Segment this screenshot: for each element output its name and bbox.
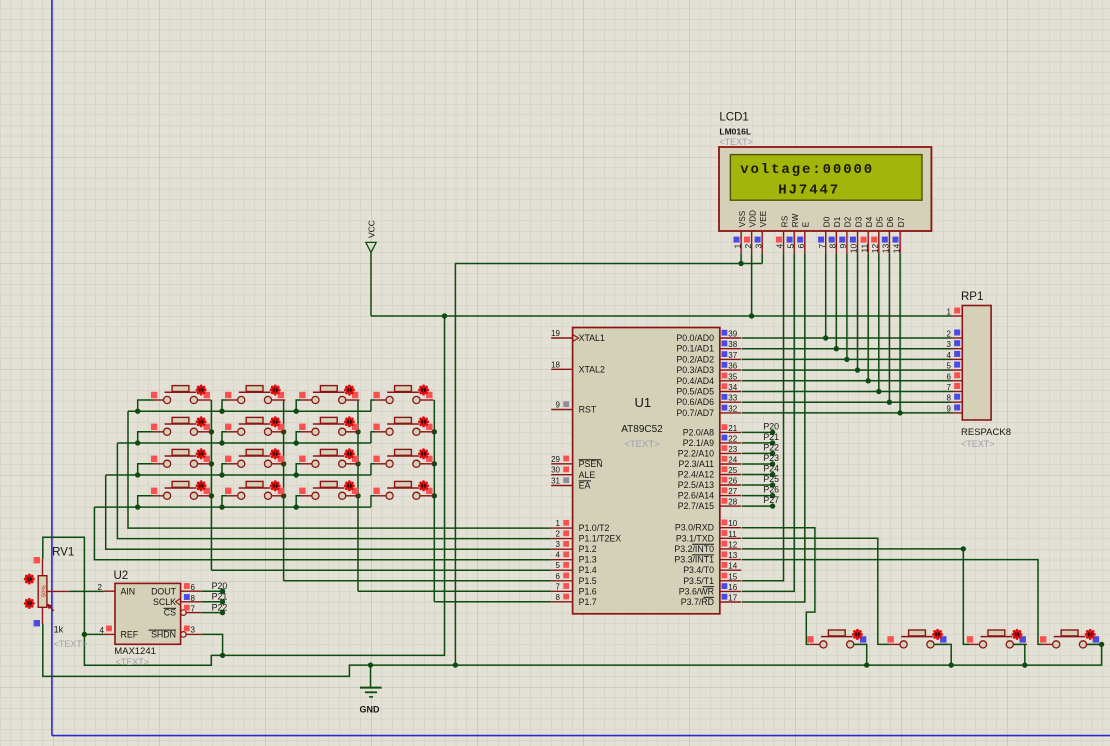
svg-text:P1.2: P1.2 — [579, 544, 597, 554]
svg-text:21: 21 — [728, 424, 737, 433]
svg-text:ALE: ALE — [579, 470, 596, 480]
push button key R4C1 — [151, 480, 211, 499]
junction key3 rail — [1022, 662, 1027, 667]
svg-text:D7: D7 — [897, 216, 906, 227]
svg-text:26: 26 — [728, 477, 737, 486]
svg-text:D4: D4 — [865, 216, 874, 227]
svg-text:25: 25 — [728, 466, 737, 475]
svg-text:VCC: VCC — [367, 220, 377, 238]
svg-text:10: 10 — [849, 244, 859, 254]
RV1 state squares — [34, 557, 40, 626]
svg-text:P1.1/T2EX: P1.1/T2EX — [579, 534, 622, 544]
wire LCD VSS — [740, 254, 742, 264]
push button key R1C1 — [151, 384, 211, 403]
svg-text:P20: P20 — [763, 421, 779, 431]
wires keypad column lines — [211, 400, 434, 602]
svg-text:11: 11 — [728, 530, 737, 539]
push button key R3C2 — [225, 448, 285, 467]
push button key R3C3 — [299, 448, 359, 467]
U1 XTAL1 clock marker — [573, 335, 579, 342]
svg-text:4: 4 — [947, 351, 952, 360]
junction REF net — [82, 632, 87, 637]
svg-text:P1.5: P1.5 — [579, 576, 597, 586]
svg-text:P3.2/INT0: P3.2/INT0 — [674, 544, 714, 554]
RV1 actuator down — [24, 598, 35, 609]
svg-text:23: 23 — [728, 445, 737, 454]
svg-text:12: 12 — [870, 244, 880, 254]
svg-text:E: E — [802, 221, 811, 227]
svg-text:36: 36 — [728, 362, 737, 371]
svg-text:6: 6 — [796, 244, 806, 249]
svg-text:3: 3 — [191, 625, 196, 634]
svg-text:<TEXT>: <TEXT> — [624, 439, 660, 450]
svg-text:LM016L: LM016L — [719, 127, 751, 137]
svg-text:2: 2 — [947, 330, 952, 339]
svg-text:<TEXT>: <TEXT> — [719, 137, 753, 147]
svg-text:9: 9 — [838, 244, 848, 249]
svg-text:7: 7 — [556, 582, 561, 591]
svg-text:EA: EA — [579, 481, 591, 491]
junction LCD-VDD — [749, 313, 754, 318]
svg-text:VDD: VDD — [748, 210, 757, 227]
push button bottom key2 — [887, 629, 947, 648]
svg-text:3: 3 — [556, 540, 561, 549]
svg-text:15: 15 — [728, 572, 737, 581]
svg-text:RESPACK8: RESPACK8 — [961, 427, 1011, 438]
svg-text:7: 7 — [817, 244, 827, 249]
junction rail-VSS — [453, 662, 458, 667]
svg-text:VSS: VSS — [738, 210, 747, 227]
ADC U2 label — [114, 570, 129, 582]
junction key2 rail — [949, 662, 954, 667]
svg-text:P21: P21 — [763, 432, 779, 442]
svg-text:39: 39 — [728, 330, 737, 339]
svg-text:17: 17 — [728, 594, 737, 603]
svg-text:32: 32 — [728, 404, 737, 413]
U2 pin names — [121, 586, 181, 639]
wire key3 to rail — [1014, 644, 1025, 665]
wire U2 SHDN to VCC branch — [202, 634, 223, 655]
wire VCC branch to U2 — [84, 316, 444, 665]
svg-text:8: 8 — [947, 394, 952, 403]
RP1 pin stubs — [952, 316, 963, 413]
wire U2 SCLK net P21 — [202, 592, 228, 605]
svg-text:4: 4 — [556, 551, 561, 560]
svg-text:AIN: AIN — [121, 586, 136, 596]
resistor pack RP1 body — [962, 306, 991, 421]
junction key4 corner — [1099, 642, 1104, 647]
svg-text:D1: D1 — [833, 216, 842, 227]
svg-text:3: 3 — [753, 244, 763, 249]
svg-text:HJ7447: HJ7447 — [778, 183, 840, 199]
RV1 actuator up — [24, 573, 35, 584]
svg-text:9: 9 — [556, 401, 561, 410]
svg-text:16: 16 — [728, 583, 737, 592]
push button key R1C3 — [299, 384, 359, 403]
LCD LCD1 body — [719, 147, 931, 231]
svg-text:U2: U2 — [114, 570, 129, 582]
wire P0 bus rows to RP1 — [742, 338, 952, 413]
push button bottom key3 — [967, 629, 1027, 648]
junction LCD-VSS — [738, 261, 743, 266]
svg-text:D3: D3 — [854, 216, 863, 227]
svg-text:30: 30 — [551, 466, 560, 475]
wire VCC rail — [371, 315, 952, 317]
wire U2 DOUT net P20 — [202, 581, 228, 594]
junctions LCD data to P0 bus — [823, 335, 903, 415]
U2 value labels — [114, 646, 156, 667]
svg-text:P2.0/A8: P2.0/A8 — [683, 427, 714, 437]
svg-text:P2.3/A11: P2.3/A11 — [678, 459, 714, 469]
svg-text:U1: U1 — [635, 395, 652, 410]
svg-text:13: 13 — [728, 551, 737, 560]
svg-text:P3.7/RD: P3.7/RD — [681, 597, 714, 607]
LCD pin stubs — [741, 231, 900, 254]
wire U2 REF — [84, 633, 104, 635]
junctions keypad row lines — [135, 409, 299, 510]
svg-text:3: 3 — [947, 340, 952, 349]
svg-text:5: 5 — [947, 362, 952, 371]
svg-text:6: 6 — [191, 583, 196, 592]
svg-text:SHDN: SHDN — [151, 629, 176, 639]
svg-text:P1.6: P1.6 — [579, 586, 597, 596]
svg-text:P3.6/WR: P3.6/WR — [679, 586, 714, 596]
svg-text:D5: D5 — [876, 216, 885, 227]
U2 pin stubs — [104, 591, 202, 637]
svg-text:D0: D0 — [823, 216, 832, 227]
svg-text:P0.5/AD5: P0.5/AD5 — [676, 387, 714, 397]
wire LCD RW to P3.6 — [742, 254, 794, 592]
svg-text:1: 1 — [947, 308, 952, 317]
RP1 value labels — [961, 427, 1011, 449]
svg-text:22: 22 — [728, 434, 737, 443]
svg-text:RV1: RV1 — [52, 547, 74, 559]
svg-text:P24: P24 — [763, 464, 779, 474]
U1 right pin stubs — [720, 338, 741, 602]
svg-text:8: 8 — [556, 593, 561, 602]
svg-text:24: 24 — [728, 456, 737, 465]
svg-text:voltage:00000: voltage:00000 — [740, 162, 874, 178]
svg-text:P22: P22 — [763, 442, 779, 452]
microcontroller U1 labels — [621, 395, 663, 450]
wire LCD E to P3.7 — [742, 254, 805, 602]
svg-text:33: 33 — [728, 394, 737, 403]
svg-text:38: 38 — [728, 340, 737, 349]
RP1 pin numbers and squares — [947, 308, 961, 414]
push button key R2C1 — [151, 416, 211, 435]
svg-text:1k: 1k — [54, 625, 64, 635]
svg-text:1: 1 — [556, 519, 561, 528]
wire LCD VDD — [751, 254, 753, 316]
svg-text:35: 35 — [728, 372, 737, 381]
push button key R4C3 — [299, 480, 359, 499]
push button key R3C1 — [151, 448, 211, 467]
svg-text:P1.4: P1.4 — [579, 565, 597, 575]
svg-text:P3.1/TXD: P3.1/TXD — [676, 533, 714, 543]
svg-text:P2.7/A15: P2.7/A15 — [678, 501, 714, 511]
LCD LCD1 labels — [719, 112, 753, 148]
push button key R4C4 — [373, 480, 433, 499]
svg-text:31: 31 — [551, 477, 560, 486]
push button bottom key1 — [807, 629, 867, 648]
junction SHDN net — [220, 653, 225, 658]
svg-text:P3.5/T1: P3.5/T1 — [683, 576, 714, 586]
power VCC symbol — [366, 220, 377, 253]
svg-text:6: 6 — [556, 572, 561, 581]
junction P3.2 corner — [961, 546, 966, 551]
svg-text:D2: D2 — [844, 216, 853, 227]
svg-text:P0.3/AD3: P0.3/AD3 — [676, 365, 714, 375]
svg-text:34: 34 — [728, 383, 737, 392]
svg-text:1: 1 — [732, 244, 742, 249]
svg-text:SCLK: SCLK — [153, 597, 176, 607]
U2 pin numbers and squares — [98, 583, 196, 635]
svg-text:6: 6 — [947, 372, 952, 381]
svg-text:LCD1: LCD1 — [719, 112, 748, 124]
wire LCD VEE — [761, 254, 763, 264]
svg-text:RS: RS — [780, 215, 789, 227]
LCD screen text — [740, 162, 874, 199]
svg-text:RW: RW — [791, 213, 800, 227]
svg-text:5: 5 — [556, 561, 561, 570]
svg-text:P3.3/INT1: P3.3/INT1 — [674, 555, 714, 565]
svg-text:9: 9 — [947, 404, 952, 413]
wire LCD data bus verticals D0-D7 — [826, 254, 900, 413]
svg-text:5: 5 — [785, 244, 795, 249]
wire U2 CS net P22 — [202, 602, 228, 615]
wire P3.1 to key2 — [742, 538, 890, 644]
U1 left pin names — [579, 333, 622, 607]
svg-text:P25: P25 — [763, 474, 779, 484]
U1 left pin numbers and squares — [551, 329, 569, 602]
svg-text:P0.0/AD0: P0.0/AD0 — [676, 333, 714, 343]
resistor pack RP1 label — [961, 291, 983, 303]
wire P3.3 to key4 — [742, 560, 1043, 645]
svg-text:P23: P23 — [763, 453, 779, 463]
wire RV1 wiper to U2 AIN — [69, 590, 104, 592]
svg-text:18: 18 — [551, 360, 560, 369]
svg-text:GND: GND — [360, 705, 381, 715]
svg-text:<TEXT>: <TEXT> — [961, 439, 995, 449]
svg-text:P3.0/RXD: P3.0/RXD — [675, 523, 714, 533]
svg-text:29: 29 — [551, 455, 560, 464]
wires keypad rows to P1.0-P1.3 — [94, 411, 551, 560]
svg-text:DOUT: DOUT — [151, 586, 177, 596]
svg-text:P26: P26 — [763, 485, 779, 495]
push button key R3C4 — [373, 448, 433, 467]
svg-text:P0.7/AD7: P0.7/AD7 — [676, 408, 714, 418]
svg-text:8: 8 — [191, 594, 196, 603]
push button bottom key4 — [1040, 629, 1100, 648]
svg-text:2: 2 — [556, 530, 561, 539]
wire REF to RV1 top loop — [43, 537, 85, 634]
svg-text:P0.2/AD2: P0.2/AD2 — [676, 354, 714, 364]
svg-text:19: 19 — [551, 329, 560, 338]
potentiometer RV1 body — [38, 559, 69, 624]
svg-text:P2.2/A10: P2.2/A10 — [678, 448, 714, 458]
svg-text:P2.6/A14: P2.6/A14 — [678, 491, 714, 501]
svg-text:28: 28 — [728, 498, 737, 507]
junction key1 rail — [864, 662, 869, 667]
svg-text:P1.7: P1.7 — [579, 597, 597, 607]
U1 left pin stubs — [551, 338, 572, 602]
ADC U2 body — [115, 583, 181, 644]
net labels P20-P27 — [763, 421, 779, 508]
wires keypad columns to P1.4-P1.7 — [211, 570, 551, 602]
svg-text:14: 14 — [728, 562, 737, 571]
svg-text:RP1: RP1 — [961, 291, 983, 303]
LCD pin numbers — [732, 244, 901, 254]
svg-text:P1.0/T2: P1.0/T2 — [579, 523, 610, 533]
push button key R1C4 — [373, 384, 433, 403]
svg-text:MAX1241: MAX1241 — [114, 646, 156, 657]
svg-text:P27: P27 — [763, 495, 779, 505]
svg-text:8: 8 — [828, 244, 838, 249]
svg-text:VEE: VEE — [759, 210, 768, 227]
svg-text:7: 7 — [947, 383, 952, 392]
svg-text:4: 4 — [775, 244, 785, 249]
svg-text:P0.6/AD6: P0.6/AD6 — [676, 397, 714, 407]
push button key R2C2 — [225, 416, 285, 435]
junction VCC-branch — [442, 313, 447, 318]
svg-text:12: 12 — [728, 540, 737, 549]
junction rail-GND — [368, 662, 373, 667]
potentiometer RV1 label — [52, 547, 74, 559]
svg-text:P20: P20 — [212, 581, 228, 591]
ground symbol GND — [360, 665, 382, 714]
wire key1 to rail — [854, 644, 867, 665]
svg-text:<TEXT>: <TEXT> — [54, 639, 88, 649]
svg-text:14: 14 — [891, 244, 901, 254]
svg-text:10: 10 — [728, 519, 737, 528]
push button key R2C3 — [299, 416, 359, 435]
svg-text:AT89C52: AT89C52 — [621, 424, 663, 435]
U1 right pin numbers and squares — [722, 330, 738, 603]
svg-text:XTAL1: XTAL1 — [579, 333, 605, 343]
svg-text:50%: 50% — [41, 585, 47, 597]
svg-text:XTAL2: XTAL2 — [579, 364, 605, 374]
svg-text:P3.4/T0: P3.4/T0 — [683, 565, 714, 575]
svg-text:RST: RST — [579, 405, 597, 415]
svg-text:P0.1/AD1: P0.1/AD1 — [676, 344, 714, 354]
svg-text:P2.4/A12: P2.4/A12 — [678, 470, 714, 480]
LCD pin name labels — [738, 210, 906, 227]
svg-text:<TEXT>: <TEXT> — [116, 657, 150, 667]
svg-text:P0.4/AD4: P0.4/AD4 — [676, 376, 714, 386]
svg-text:D6: D6 — [886, 216, 895, 227]
junctions keypad column lines — [209, 429, 437, 498]
wire VCC drop — [370, 253, 372, 316]
svg-text:P22: P22 — [212, 602, 228, 612]
svg-text:37: 37 — [728, 351, 737, 360]
svg-text:REF: REF — [121, 629, 139, 639]
wires keypad row lines — [94, 400, 375, 507]
svg-text:P2.5/A13: P2.5/A13 — [678, 480, 714, 490]
RV1 value labels — [54, 625, 88, 650]
wire GND rail — [43, 624, 1102, 677]
svg-text:P2.1/A9: P2.1/A9 — [683, 438, 714, 448]
push button key R2C4 — [373, 416, 433, 435]
svg-text:2: 2 — [743, 244, 753, 249]
wire LCD RS to P3.5 — [742, 254, 784, 581]
wire VSS riser — [455, 264, 762, 666]
svg-text:11: 11 — [859, 244, 869, 253]
svg-text:PSEN: PSEN — [579, 459, 603, 469]
wire key2 to rail — [934, 644, 951, 665]
svg-text:P1.3: P1.3 — [579, 555, 597, 565]
wire key4 to rail — [1087, 643, 1102, 645]
U1 right pin names — [674, 333, 714, 607]
svg-text:7: 7 — [191, 605, 196, 614]
push button key R1C2 — [225, 384, 285, 403]
svg-text:P21: P21 — [212, 592, 228, 602]
LCD pin state squares — [734, 237, 899, 243]
microcontroller U1 body — [573, 328, 720, 614]
wire P3.0 to key1 — [742, 528, 815, 645]
svg-text:13: 13 — [881, 244, 891, 254]
push button key R4C2 — [225, 480, 285, 499]
wire P3.2 to key3 — [742, 549, 969, 645]
wires P2 net stubs — [742, 432, 773, 506]
svg-text:CS: CS — [164, 608, 176, 618]
svg-text:2: 2 — [98, 583, 103, 592]
svg-text:27: 27 — [728, 487, 737, 496]
